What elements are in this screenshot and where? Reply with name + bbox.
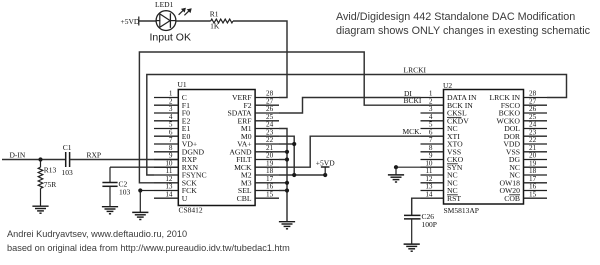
svg-text:14: 14 (425, 190, 433, 198)
wire U1 pin 8 DGND stub (154, 151, 178, 153)
LED LED1 (156, 11, 176, 31)
svg-text:3: 3 (169, 105, 173, 113)
wire U1 pin 18 M2 to +5VD (279, 174, 325, 176)
svg-text:1K: 1K (210, 22, 220, 31)
svg-text:7: 7 (429, 136, 433, 144)
node M3 junction (279, 182, 287, 184)
svg-text:2: 2 (169, 97, 173, 105)
svg-text:103: 103 (62, 168, 74, 177)
svg-text:75R: 75R (44, 180, 57, 189)
ground under FCK (132, 211, 148, 213)
wire U2 pin 16 OW20 stub (524, 190, 548, 192)
wire U1 pin 27 F2 stub (255, 104, 279, 106)
title block (336, 10, 600, 38)
wire U1 pin 12 SCK stub (154, 182, 178, 184)
svg-text:10: 10 (425, 159, 433, 167)
node VA+ junction (279, 143, 294, 145)
svg-text:19: 19 (266, 159, 274, 167)
wire R1 to U1 VERF pin 28 (233, 21, 287, 98)
svg-text:DI: DI (404, 89, 412, 98)
wire U2 pin 14 RST stub (421, 197, 444, 199)
svg-text:18: 18 (266, 167, 274, 175)
svg-text:D-IN: D-IN (10, 150, 26, 159)
wire U2 pin 1 DATA IN stub (421, 97, 444, 99)
wire U2 pin 25 WCKO stub (524, 120, 548, 122)
wire U2 pin 10 SYN stub (421, 166, 444, 168)
wire U1 pin 23 M0 to +5V rail (279, 136, 294, 175)
svg-text:22: 22 (266, 136, 274, 144)
svg-text:U2: U2 (443, 81, 452, 90)
wire C1 to U1 RXP pin 9 (70, 159, 179, 161)
ground under C26 (404, 243, 420, 245)
wire U2 pin 7 XTO stub (421, 143, 444, 145)
node SEL junction (279, 190, 287, 192)
svg-text:LED1: LED1 (155, 0, 174, 9)
svg-text:3: 3 (429, 105, 433, 113)
wire ground bus from U1 pin 24 M1 (279, 129, 287, 222)
wire U1 pin 22 VA+ stub (255, 143, 279, 145)
svg-text:6: 6 (169, 128, 173, 136)
wire U2 pin 23 DOR stub (524, 135, 548, 137)
wire U1 pin 3 F0 stub (154, 112, 178, 114)
node FILT junction (279, 159, 287, 161)
svg-text:11: 11 (426, 167, 433, 175)
wire RXN from C2 to U1 pin 10 (110, 166, 178, 168)
svg-text:CS8412: CS8412 (179, 205, 203, 214)
wire U2 pin 10 SYN to ground (396, 166, 421, 168)
wire U1 pin 28 VERF stub (255, 97, 279, 99)
svg-text:CBL: CBL (237, 194, 252, 203)
capacitor C2 (102, 182, 117, 184)
resistor R13 (38, 167, 43, 188)
capacitor C1 (65, 152, 67, 167)
svg-text:19: 19 (529, 159, 537, 167)
svg-text:23: 23 (529, 128, 537, 136)
svg-text:R1: R1 (210, 9, 219, 18)
wire U2 pin 11 NC stub (421, 174, 444, 176)
wire U1 pin 10 RXN stub (154, 166, 178, 168)
wire SDATA: U1 pin 26 to U2 pin 1 DATA IN (279, 98, 421, 114)
resistor R1 (211, 19, 233, 23)
svg-text:100P: 100P (422, 220, 437, 229)
svg-text:103: 103 (119, 188, 131, 197)
node FCK junction (138, 188, 142, 192)
wire SCK wrap: U1 pin 12 SCK to U2 pin 2 BCK IN (139, 52, 420, 183)
wire U2 pin 2 BCK IN stub (421, 104, 444, 106)
wire U1 pin 19 MCK stub (255, 166, 279, 168)
svg-text:U: U (182, 194, 188, 203)
svg-text:15: 15 (266, 190, 274, 198)
wire U2 pin 18 NC stub (524, 174, 548, 176)
wire U1 pin 2 F1 stub (154, 104, 178, 106)
node D-IN junction (38, 157, 42, 161)
svg-text:23: 23 (266, 128, 274, 136)
op IC U1 outline (178, 90, 255, 206)
wire U2 pin 12 NC stub (421, 182, 444, 184)
wire U2 pin 3 CKSL stub (421, 112, 444, 114)
wire U1 pin 13 FCK stub (154, 190, 178, 192)
wire U1 pin 13 FCK to ground (140, 190, 154, 192)
wire U1 pin 17 M3 stub (255, 182, 279, 184)
wire U1 pin 9 RXP stub (154, 159, 178, 161)
credits (7, 228, 290, 255)
svg-text:18: 18 (529, 167, 537, 175)
svg-text:15: 15 (529, 190, 537, 198)
svg-text:R13: R13 (44, 166, 57, 175)
wire R13 to ground (40, 188, 42, 206)
wire LED1 cathode to R1 (176, 20, 211, 22)
wire U1 pin 14 U stub (154, 197, 178, 199)
wire C2 lead up (109, 167, 111, 182)
svg-text:U1: U1 (178, 80, 187, 89)
power +5VD (mode pins) (324, 167, 326, 175)
wire U1 pin 11 FSYNC stub (154, 174, 178, 176)
wire U1 pin 5 E1 stub (154, 128, 178, 130)
wire U2 pin 20 DG stub (524, 159, 548, 161)
wire U2 pin 6 XTI stub (421, 135, 444, 137)
svg-text:C1: C1 (63, 143, 72, 152)
wire D-IN input (2, 159, 66, 161)
svg-text:LRCKI: LRCKI (404, 66, 427, 75)
node SYN junction (394, 165, 398, 169)
wire U2 pin 15 COB stub (524, 197, 548, 199)
wire U1 pin 1 C stub (154, 97, 178, 99)
wire U2 pin 19 NC stub (524, 166, 548, 168)
ground under C2 (102, 206, 118, 208)
svg-text:14: 14 (165, 190, 173, 198)
wire U1 pin 20 FILT stub (255, 159, 279, 161)
wire U2 pin 4 CKDV stub (421, 120, 444, 122)
node AGND junction (279, 151, 287, 153)
wire C26 to ground (411, 219, 413, 244)
wire U2 pin 8 VSS stub (421, 151, 444, 153)
wire U2 pin 26 BCKO stub (524, 112, 548, 114)
wire U1 pin 23 M0 stub (255, 135, 279, 137)
ground under SYN (388, 174, 404, 176)
wire U1 pin 24 M1 stub (255, 128, 279, 130)
svg-text:26: 26 (529, 105, 537, 113)
svg-text:+5VD: +5VD (316, 159, 335, 168)
wire U1 pin 18 M2 stub (255, 174, 279, 176)
svg-text:7: 7 (169, 136, 173, 144)
wire U2 pin 17 OW18 stub (524, 182, 548, 184)
svg-text:11: 11 (166, 167, 173, 175)
wire LRCKI: U1 pin 11 FSYNC to U2 pin 28 LRCK IN (147, 75, 567, 176)
wire MCK: U1 pin 19 to U2 pin 6 XTI (279, 136, 421, 167)
capacitor C26 (404, 214, 421, 216)
svg-text:MCK.: MCK. (403, 127, 422, 136)
wire +5VD to LED1 anode (139, 20, 156, 22)
svg-text:SM5813AP: SM5813AP (444, 206, 479, 215)
wire U2 pin 13 NC stub (421, 190, 444, 192)
node +5VD tap junction (323, 173, 327, 177)
svg-text:26: 26 (266, 105, 274, 113)
svg-text:+5VD: +5VD (121, 17, 140, 26)
ground under R13 (32, 205, 48, 207)
wire U2 pin 28 LRCK IN stub (524, 97, 548, 99)
wire SYN ground drop (395, 167, 397, 175)
ground under bus (279, 221, 295, 223)
wire U2 pin 21 VSS stub (524, 151, 548, 153)
wire U1 pin 4 E2 stub (154, 120, 178, 122)
svg-text:Input OK: Input OK (150, 32, 191, 44)
wire FCK ground drop (139, 191, 141, 213)
wire U2 pin 24 DOL stub (524, 128, 548, 130)
wire U1 pin 7 VD+ stub (154, 143, 178, 145)
svg-text:27: 27 (529, 97, 537, 105)
wire C2 to ground (109, 186, 111, 206)
wire U1 pin 6 E0 stub (154, 135, 178, 137)
wire U1 pin 21 AGND stub (255, 151, 279, 153)
svg-text:27: 27 (266, 97, 274, 105)
svg-text:2: 2 (429, 97, 433, 105)
svg-text:RXP: RXP (87, 150, 102, 159)
wire U1 pin 15 CBL stub (255, 197, 279, 199)
wire U1 pin 25 ERF stub (255, 120, 279, 122)
wire U2 pin 9 CKO stub (421, 159, 444, 161)
wire U1 pin 26 SDATA stub (255, 112, 279, 114)
wire U2 pin 22 VDD stub (524, 143, 548, 145)
wire U2 pin 14 RST to C26 (412, 198, 421, 215)
svg-text:10: 10 (165, 159, 173, 167)
op IC U2 outline (444, 90, 524, 205)
wire U2 pin 27 FSCO stub (524, 104, 548, 106)
svg-text:6: 6 (429, 128, 433, 136)
svg-text:22: 22 (529, 136, 537, 144)
wire junction to R13 (40, 160, 42, 168)
wire U1 pin 16 SEL stub (255, 190, 279, 192)
node M2/+5V rail junction (292, 173, 296, 177)
wire U2 pin 5 NC stub (421, 128, 444, 130)
